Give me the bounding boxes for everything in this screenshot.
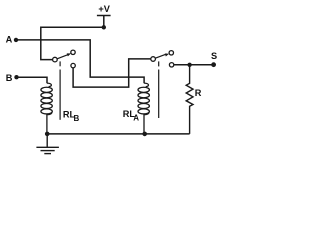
switch S1 bottom throw contact [71,63,75,67]
node A terminal dot [14,38,18,42]
switch S2 arrowhead [165,54,169,57]
wire switch2 bottom throw to S [174,64,214,66]
node junction dot coil RLA bottom [142,132,147,137]
node: +V junction dot [102,25,106,29]
svg-text:B: B [6,73,13,83]
wire +V to switch1 pole [41,27,104,59]
+V supply bar [97,15,111,17]
ground symbol [36,134,59,154]
switch S1 top throw contact [71,50,75,54]
switch S1 arrowhead [67,53,71,56]
switch S1 link line [59,70,61,120]
switch S2 link line [158,70,160,119]
switch S2 top throw contact [169,51,173,55]
switch S1 pole contact [53,57,58,62]
wire switch1 bottom throw to switch2 pole [73,59,151,87]
node S terminal dot [211,62,216,67]
switch S2 bottom throw contact [169,63,173,67]
node junction dot at resistor top [187,63,191,67]
wire B to relay coil RLB [17,77,48,83]
svg-text:+V: +V [98,4,110,14]
resistor R [186,65,193,134]
+V stem wire [103,16,105,28]
switch S1 arm [57,54,69,59]
node junction dot coil RLB bottom [45,132,50,137]
relay coil RLA [138,83,149,134]
wire A to relay coil RLA [16,40,144,83]
svg-text:A: A [133,114,139,123]
relay coil RLB [41,83,52,134]
bottom ground bus wire [47,133,189,135]
svg-text:A: A [6,35,13,45]
switch S2 pole contact [151,57,156,62]
node B terminal dot [14,75,18,79]
svg-text:R: R [195,88,202,98]
switch S1 link dash [59,61,61,66]
svg-text:S: S [211,51,217,61]
svg-text:B: B [74,114,80,123]
switch S2 arm [155,54,166,58]
switch S2 link dash [158,61,160,66]
